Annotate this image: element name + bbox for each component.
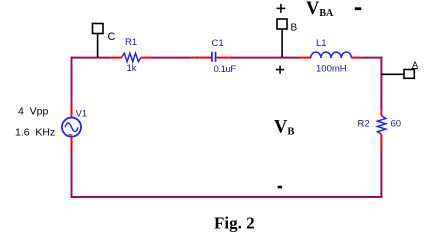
resistor R2 lead top xyxy=(380,110,382,116)
wire top segment left xyxy=(71,57,111,59)
terminal A square xyxy=(404,70,414,79)
svg-text:R1: R1 xyxy=(125,37,137,48)
terminal B stub wire xyxy=(281,29,283,57)
resistor R1 lead right xyxy=(141,57,152,59)
svg-text:VBA: VBA xyxy=(306,0,334,19)
source V1 lead top xyxy=(71,106,73,119)
resistor R1 lead left xyxy=(111,57,122,59)
wire left vertical lower xyxy=(71,146,73,198)
svg-text:VB: VB xyxy=(274,118,294,138)
svg-text:V1: V1 xyxy=(76,108,88,119)
source V1 lead bottom xyxy=(71,137,73,146)
wire between C1 and L1 xyxy=(230,57,302,59)
svg-text:C: C xyxy=(108,31,116,43)
terminal C stub wire xyxy=(97,34,99,58)
svg-text:0.1uF: 0.1uF xyxy=(214,64,237,75)
capacitor C1 lead right xyxy=(217,57,230,59)
inductor L1 lead right xyxy=(352,57,363,59)
wire left vertical upper xyxy=(71,57,73,106)
terminal C square xyxy=(93,24,104,34)
svg-text:1.6 KHz: 1.6 KHz xyxy=(15,127,55,139)
svg-text:60: 60 xyxy=(391,119,402,130)
wire between R1 and C1 xyxy=(152,57,191,59)
svg-text:4 Vpp: 4 Vpp xyxy=(18,106,49,118)
source V1 sine xyxy=(65,123,78,132)
wire between L1 and top-right corner xyxy=(362,57,382,59)
source V1 minus mark xyxy=(69,134,73,136)
inductor L1 body xyxy=(311,52,352,58)
capacitor C1 plate left xyxy=(211,52,213,62)
svg-text:1k: 1k xyxy=(127,63,137,74)
VB minus sign xyxy=(278,186,283,189)
VBA plus sign xyxy=(277,4,286,13)
resistor R1 body xyxy=(122,53,142,61)
svg-text:C1: C1 xyxy=(212,38,224,49)
resistor R2 body xyxy=(377,116,385,135)
capacitor C1 lead left red inner xyxy=(199,57,211,59)
capacitor C1 lead left red outer xyxy=(191,57,196,59)
capacitor C1 plate right xyxy=(215,52,217,62)
wire bottom horizontal xyxy=(71,196,383,198)
svg-text:100mH: 100mH xyxy=(316,64,347,75)
wire right vertical lower xyxy=(380,146,382,198)
svg-text:B: B xyxy=(291,23,298,34)
VB plus sign xyxy=(276,66,284,74)
wire right vertical upper xyxy=(380,57,382,111)
wire short segment left of C1 xyxy=(196,57,199,59)
source V1 circle xyxy=(62,118,81,137)
node label A underline xyxy=(412,68,418,70)
svg-text:L1: L1 xyxy=(316,38,327,49)
terminal B square xyxy=(277,19,287,29)
VBA minus sign xyxy=(355,7,362,10)
terminal A stub wire xyxy=(381,73,404,75)
inductor L1 lead left xyxy=(301,57,311,59)
resistor R2 lead bottom xyxy=(380,134,382,146)
svg-text:Fig. 2: Fig. 2 xyxy=(214,213,255,232)
svg-text:R2: R2 xyxy=(358,119,370,130)
